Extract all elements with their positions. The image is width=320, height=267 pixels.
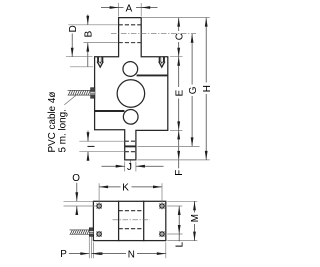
svg-text:I: I — [86, 145, 97, 148]
load cell body outline view1 — [95, 18, 168, 160]
svg-text:J: J — [127, 162, 132, 173]
svg-text:PVC cable 4ø: PVC cable 4ø — [47, 92, 58, 153]
base block outline view2 — [93, 201, 165, 240]
screw top-left — [97, 203, 102, 208]
svg-text:B: B — [84, 30, 95, 37]
boss edges view2 — [119, 201, 144, 240]
svg-text:P: P — [60, 249, 67, 260]
svg-text:H: H — [202, 85, 213, 92]
svg-text:G: G — [188, 87, 199, 95]
svg-text:M: M — [190, 214, 201, 222]
dimension K extension lines — [99, 183, 162, 209]
svg-text:D: D — [68, 25, 79, 32]
svg-text:C: C — [174, 33, 185, 40]
bottom relief hole — [123, 109, 138, 124]
mounting screw symbol right — [158, 57, 165, 69]
reference line left — [70, 66, 93, 68]
dimension B — [68, 25, 118, 43]
screw top-right — [159, 203, 164, 208]
center bore hole — [117, 80, 145, 108]
dimension A — [119, 3, 142, 17]
tab thick band — [125, 145, 136, 147]
svg-text:F: F — [174, 170, 185, 176]
svg-text:N: N — [128, 249, 135, 260]
dimension M — [167, 201, 197, 240]
top relief hole — [123, 62, 138, 77]
dimension N extension lines — [93, 242, 165, 258]
dimension D — [66, 56, 93, 58]
svg-text:K: K — [122, 183, 129, 194]
cable gland nut view1 — [91, 88, 95, 99]
dimension I — [87, 131, 89, 160]
hidden bore view2 — [119, 211, 144, 229]
dimension O — [64, 201, 97, 206]
tab hidden hole — [125, 141, 136, 152]
dimension P extension lines — [89, 237, 91, 259]
dimension E — [170, 129, 183, 131]
dimension P — [69, 253, 102, 255]
dimension I extension lines — [79, 141, 124, 152]
cable view1 — [68, 90, 91, 95]
mounting screw symbol left — [97, 57, 104, 69]
bore center line view2 — [113, 219, 151, 221]
dimension N — [93, 253, 165, 255]
upper slot cut — [137, 74, 168, 76]
svg-text:O: O — [72, 173, 80, 184]
svg-text:5 m. long.: 5 m. long. — [57, 109, 68, 152]
svg-text:E: E — [174, 89, 185, 96]
svg-text:L: L — [175, 241, 186, 247]
dimension C — [141, 18, 210, 57]
tab center line — [129, 161, 131, 170]
svg-text:A: A — [126, 4, 133, 15]
boss hole center line — [111, 33, 196, 35]
dimension F — [178, 130, 180, 168]
lower slot cut — [95, 110, 125, 112]
dimension L — [167, 206, 182, 234]
screw bottom-left — [97, 231, 102, 236]
cable gland nut view2 — [89, 228, 93, 237]
dimension G — [138, 145, 200, 147]
dimension K — [99, 186, 162, 188]
boss hidden hole — [119, 25, 142, 43]
dimension J — [125, 162, 136, 172]
screw bottom-right — [159, 231, 164, 236]
dimension H — [138, 159, 210, 161]
cable view2 — [70, 230, 90, 234]
leader to cable note — [64, 94, 77, 105]
